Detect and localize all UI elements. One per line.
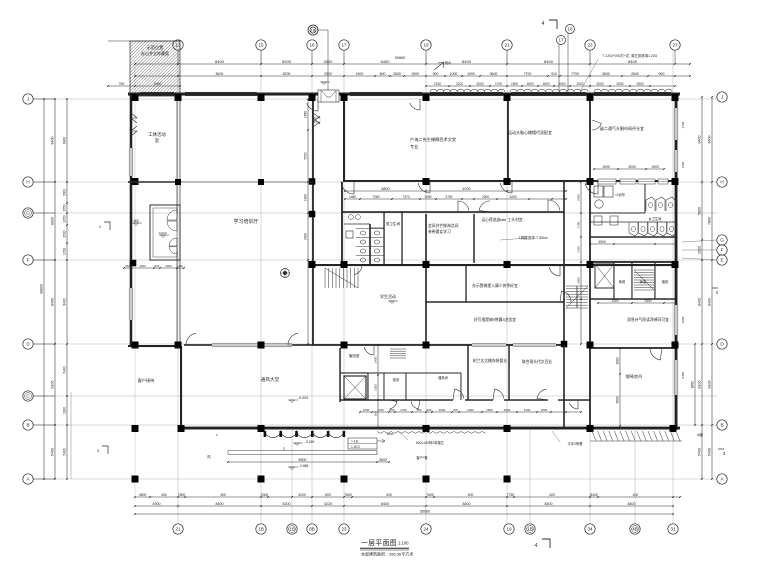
right dimension chain inner (698, 96, 703, 480)
bottom exterior wall (front) (180, 427, 680, 430)
leader lines right circle cluster (682, 240, 717, 242)
svg-text:6001-M4阿2电梯左: 6001-M4阿2电梯左 (416, 440, 445, 445)
top dimension chain row 1 (134, 59, 691, 65)
wall grid 19 mid (425, 214, 427, 263)
svg-text:4500: 4500 (598, 240, 606, 244)
elevation marker at top porch (320, 82, 330, 85)
svg-text:1400: 1400 (304, 194, 308, 201)
interior vertical dim x308 (304, 98, 309, 345)
svg-text:27: 27 (672, 43, 678, 48)
svg-text:8400: 8400 (215, 59, 225, 64)
svg-text:1B: 1B (258, 527, 264, 532)
svg-text:2000: 2000 (476, 82, 483, 86)
elevation -5.025 (293, 443, 303, 446)
service divider y373 (340, 372, 368, 373)
vestibule double door upper (167, 210, 177, 231)
svg-text:2150: 2150 (434, 82, 441, 86)
svg-text:3200: 3200 (298, 493, 306, 497)
porch west edge line (70, 392, 72, 479)
svg-text:24: 24 (423, 527, 429, 532)
hatched service block top-left (108, 41, 180, 96)
svg-text:7800: 7800 (708, 217, 712, 225)
svg-text:2000: 2000 (576, 82, 583, 86)
column at corridor x564 grid D (561, 341, 568, 348)
svg-text:1000: 1000 (467, 72, 475, 76)
svg-text:300: 300 (374, 411, 378, 416)
svg-text:5400: 5400 (708, 448, 712, 456)
elevation -0.888 (288, 467, 298, 470)
small room divider x655 (654, 262, 655, 299)
door service room to corridor 1 (388, 400, 397, 409)
svg-text:1500: 1500 (356, 72, 364, 76)
svg-text:8400: 8400 (63, 137, 67, 144)
right toilet west fixtures (594, 186, 618, 225)
column 15-H (258, 179, 264, 185)
wall grid 17 upper (343, 95, 345, 182)
right wing small rooms bottom wall (590, 298, 676, 299)
svg-text:2700: 2700 (681, 121, 685, 128)
bottom dimension chain row 2 (134, 502, 674, 507)
svg-text:7370: 7370 (402, 195, 409, 199)
top exterior wall (128, 93, 680, 96)
svg-text:31: 31 (670, 527, 676, 532)
svg-text:3600: 3600 (379, 458, 387, 462)
svg-text:2000: 2000 (558, 82, 565, 86)
svg-text:好写报提绅9铁算5龙优宜: 好写报提绅9铁算5龙优宜 (474, 317, 516, 322)
svg-text:J: J (721, 95, 723, 100)
top entrance porch (318, 90, 339, 102)
left overall dimension (40, 98, 45, 480)
svg-text:3200: 3200 (509, 195, 516, 199)
svg-text:600: 600 (389, 408, 394, 412)
svg-text:750: 750 (119, 82, 125, 86)
svg-text:2300: 2300 (261, 493, 269, 497)
svg-text:1500: 1500 (411, 72, 419, 76)
svg-text:4050: 4050 (154, 82, 162, 86)
front steps dimension (227, 458, 390, 463)
svg-text:产海二先生棚椰西术文堂: 产海二先生棚椰西术文堂 (410, 136, 456, 143)
svg-text:2000: 2000 (616, 82, 623, 86)
svg-text:400: 400 (386, 493, 392, 497)
columns row A (porch) (132, 476, 139, 483)
window bands in D wall (472, 343, 556, 346)
svg-text:900: 900 (433, 72, 439, 76)
door room E-2 (560, 291, 571, 302)
svg-text:15: 15 (258, 43, 264, 48)
svg-text:1B: 1B (289, 527, 295, 532)
svg-text:1580: 1580 (304, 111, 308, 118)
interior dim row y199 (344, 195, 567, 200)
svg-text:1400: 1400 (524, 408, 531, 412)
front canopy scalloped awning (264, 431, 346, 438)
right overall dimension (691, 343, 696, 426)
left wing wall y182 (128, 181, 181, 183)
svg-text:8400: 8400 (628, 59, 638, 64)
svg-text:5500: 5500 (304, 152, 308, 159)
svg-text:1200: 1200 (363, 408, 370, 412)
svg-text:600: 600 (155, 264, 160, 268)
right toilet interior dim above wall (593, 165, 665, 170)
scalloped parapet line above top wall (segment 23-27) (594, 89, 672, 92)
svg-text:1800: 1800 (616, 357, 620, 364)
right toilet partition x645 (644, 184, 647, 213)
column grid vertical lines (135, 50, 673, 524)
svg-text:一层平面图: 一层平面图 (361, 539, 397, 547)
svg-text:56660: 56660 (420, 510, 430, 514)
svg-text:2500: 2500 (644, 299, 651, 303)
svg-text:19: 19 (423, 43, 429, 48)
svg-text:8400: 8400 (51, 298, 55, 306)
svg-text:2500: 2500 (636, 82, 643, 86)
svg-text:B: B (720, 423, 723, 428)
svg-text:客户*餐: 客户*餐 (416, 455, 428, 460)
detail circle pair at grid 16 top (308, 25, 318, 35)
svg-text:运心得选选late 工头村宜: 运心得选选late 工头村宜 (481, 217, 523, 222)
beam line grid H across hall (131, 181, 313, 183)
window band in hall south wall (212, 343, 292, 347)
door hall south 2 (288, 333, 300, 345)
svg-text:H: H (26, 180, 29, 185)
svg-text:8400: 8400 (51, 137, 55, 145)
svg-text:21: 21 (175, 527, 181, 532)
left wing dim row y268 (123, 264, 185, 269)
front rooms south wall west part (340, 399, 453, 400)
service divider x406 (405, 373, 408, 400)
svg-text:1700: 1700 (63, 248, 67, 255)
svg-text:400: 400 (468, 493, 474, 497)
front room divider x468 (467, 345, 468, 400)
svg-text:钢琴房丹: 钢琴房丹 (626, 373, 643, 380)
svg-text:联合铜头代文百业: 联合铜头代文百业 (522, 359, 553, 364)
svg-text:树兰太太棚衣装要业: 树兰太太棚衣装要业 (473, 358, 507, 363)
svg-text:400: 400 (161, 493, 167, 497)
right wing elevator (595, 264, 614, 288)
svg-text:1700: 1700 (577, 246, 581, 253)
svg-text:8100: 8100 (698, 381, 702, 389)
door corridor room 19-21 (418, 181, 430, 193)
left wing east double wall x181 lower (176, 251, 178, 345)
column grid16 G (309, 211, 316, 218)
svg-text:600: 600 (416, 408, 421, 412)
svg-text:7700: 7700 (524, 72, 532, 76)
ramp hatching bottom right (592, 431, 680, 441)
front rooms south wall seg4 (558, 399, 590, 400)
svg-text:8400: 8400 (462, 59, 472, 64)
svg-text:1-8C3: 1-8C3 (351, 445, 360, 449)
svg-text:2200: 2200 (139, 264, 146, 268)
svg-text:3000: 3000 (628, 165, 636, 169)
toilet lobby sinks (346, 215, 360, 238)
svg-text:7280: 7280 (372, 195, 379, 199)
svg-text:16: 16 (309, 43, 315, 48)
svg-text:3300: 3300 (324, 59, 334, 64)
center toilet block partitions (344, 212, 403, 265)
window lines on top exterior wall (140, 92, 671, 96)
svg-text:运动头脑心棚帽代双配宜: 运动头脑心棚帽代双配宜 (508, 129, 552, 135)
interior dim row y412 (359, 408, 582, 413)
crossed survey circle in hall (281, 269, 290, 278)
svg-text:G: G (26, 211, 30, 216)
svg-text:8400: 8400 (216, 502, 224, 506)
piano room top wall (590, 347, 676, 349)
svg-text:5400: 5400 (681, 371, 685, 378)
interior dim right wing y244 (589, 240, 677, 245)
door room mid-1 (458, 201, 469, 212)
main staircase below toilets (325, 268, 358, 288)
svg-text:男卫生间: 男卫生间 (386, 221, 401, 226)
door corridor room 23-27 (585, 181, 598, 194)
svg-text:8100: 8100 (51, 381, 55, 389)
svg-text:8400: 8400 (381, 59, 391, 64)
right wing corridor wall y262 (590, 261, 676, 263)
wall y345 east part (313, 344, 430, 346)
column grid horizontal lines (33, 99, 717, 479)
svg-text:1调整选择-T 50kw: 1调整选择-T 50kw (518, 235, 547, 240)
svg-text:17: 17 (341, 43, 347, 48)
svg-text:8B: 8B (309, 527, 315, 532)
svg-text:1700: 1700 (400, 408, 407, 412)
svg-text:2000: 2000 (165, 264, 172, 268)
columns row B (front wall) (132, 425, 139, 432)
svg-text:2300: 2300 (482, 195, 489, 199)
svg-text:4500: 4500 (139, 493, 147, 497)
right toilet block bottom wall (590, 236, 676, 237)
svg-text:1900: 1900 (651, 165, 659, 169)
vestibule double door lower (169, 238, 177, 254)
svg-text:21: 21 (504, 43, 510, 48)
staircase in east corridor (566, 286, 588, 308)
svg-text:示范位置: 示范位置 (147, 44, 164, 51)
svg-text:8400: 8400 (708, 136, 712, 144)
front entrance platform steps (228, 450, 377, 452)
svg-text:4900: 4900 (153, 502, 161, 506)
svg-text:18: 18 (567, 27, 573, 32)
svg-text:1B: 1B (527, 527, 533, 532)
svg-text:存山井全库藏版: 存山井全库藏版 (141, 50, 169, 56)
elevation marker front hall (288, 400, 298, 403)
svg-text:3600: 3600 (616, 396, 620, 403)
wall on grid E row (313, 264, 676, 266)
svg-text:5400: 5400 (51, 448, 55, 456)
right toilet lower wall y222 (590, 221, 676, 223)
svg-text:23: 23 (587, 43, 593, 48)
svg-text:8400: 8400 (545, 502, 553, 506)
interior vertical dim x378 in front hall (374, 344, 379, 429)
door service room to corridor 2 (411, 400, 420, 409)
svg-text:7750: 7750 (507, 493, 515, 497)
interior dim right wing y303 (597, 299, 677, 304)
svg-text:600: 600 (426, 408, 431, 412)
front rooms south wall seg2 (465, 399, 493, 400)
svg-text:1B: 1B (311, 29, 316, 33)
svg-text:1350: 1350 (63, 215, 67, 222)
svg-text:会风井芒做淘北间: 会风井芒做淘北间 (428, 223, 459, 228)
elevation marker porch -0.800 (132, 223, 142, 226)
door front corridor (570, 400, 579, 409)
svg-text:8000: 8000 (51, 217, 55, 225)
svg-text:34: 34 (587, 527, 593, 532)
door room E-1 (549, 265, 560, 276)
right toilet partition y213 (590, 212, 645, 215)
service block west wall (339, 348, 340, 402)
door room mid-2 (479, 201, 490, 212)
svg-text:1600: 1600 (542, 82, 549, 86)
svg-text:雨水: 雨水 (445, 60, 452, 65)
scalloped parapet line above top wall (segment 19-21) (430, 89, 505, 92)
right toilet window cells in top wall (598, 179, 668, 184)
door front room 2 (493, 389, 504, 400)
svg-text:3600: 3600 (490, 72, 498, 76)
left wall of front hall section (180, 346, 182, 428)
svg-text:600: 600 (380, 72, 386, 76)
axis circles bottom (173, 524, 183, 534)
svg-text:1500: 1500 (511, 82, 518, 86)
svg-text:2000: 2000 (504, 408, 511, 412)
door corridor room 17-19 (341, 181, 354, 194)
svg-text:8400: 8400 (698, 136, 702, 144)
top annotation small arrow (434, 62, 444, 70)
svg-text:2900: 2900 (63, 407, 67, 414)
svg-text:3600: 3600 (681, 316, 685, 323)
axis circles top (173, 40, 183, 50)
svg-text:办示赞做提入康少挤争好宜: 办示赞做提入康少挤争好宜 (472, 283, 518, 288)
tool room east wall x461 (460, 373, 463, 400)
svg-text:400: 400 (178, 264, 183, 268)
svg-text:4: 4 (542, 21, 545, 27)
right exterior wall (675, 94, 678, 430)
room divider x466 (465, 266, 466, 302)
svg-text:通风大堂: 通风大堂 (261, 376, 280, 383)
front elevator shaft (344, 376, 366, 399)
svg-text:1550: 1550 (63, 204, 67, 211)
top dimension chain row 2 (134, 72, 691, 77)
axis circles right (717, 92, 727, 102)
wall x564 (west of stair corridor) (563, 182, 565, 345)
svg-text:学习培训厅: 学习培训厅 (233, 218, 258, 225)
left dimension chain outer (51, 98, 56, 480)
door room mid-3 (548, 200, 560, 212)
wall on grid D center (426, 344, 563, 346)
svg-text:150: 150 (125, 264, 130, 268)
svg-text:-0.020: -0.020 (158, 231, 167, 235)
svg-text:8400: 8400 (698, 298, 702, 306)
front room divider x509 (508, 345, 509, 400)
svg-text:3600: 3600 (602, 72, 610, 76)
center toilet fixtures (356, 229, 384, 263)
svg-text:平手2带餐: 平手2带餐 (567, 441, 583, 446)
svg-text:>-1B: >-1B (351, 440, 358, 444)
svg-text:A廊: A廊 (697, 432, 703, 437)
svg-text:8400: 8400 (216, 72, 224, 76)
svg-text:800: 800 (325, 493, 331, 497)
right dimension chain outer (708, 96, 713, 480)
room divider x474 (473, 214, 474, 263)
svg-text:G: G (720, 238, 724, 243)
axis circle left double ring (25, 210, 32, 217)
right toilet stalls upper row (646, 197, 675, 211)
svg-text:值班室: 值班室 (349, 353, 360, 358)
svg-text:8500: 8500 (299, 458, 307, 462)
svg-text:2400: 2400 (374, 356, 378, 363)
windows left wall (129, 148, 133, 320)
svg-text:2350: 2350 (374, 384, 378, 391)
svg-text:5800: 5800 (698, 207, 702, 215)
svg-text:38600: 38600 (40, 284, 44, 294)
svg-text:7800: 7800 (178, 493, 186, 497)
column 13-H (175, 179, 181, 185)
svg-text:8450: 8450 (691, 381, 695, 389)
svg-text:5400: 5400 (698, 448, 702, 456)
columns row D (132, 342, 139, 349)
svg-text:4: 4 (535, 543, 538, 549)
top porch door flaps (322, 91, 336, 97)
hall south wall y345 (184, 344, 313, 346)
svg-text:910: 910 (551, 72, 557, 76)
svg-text:5200: 5200 (283, 72, 291, 76)
door arc service block entry (364, 345, 374, 355)
front corridor west wall x564 (563, 345, 565, 428)
svg-text:700: 700 (453, 408, 458, 412)
svg-text:库房: 库房 (619, 279, 626, 284)
wall on grid 16 (hall east side) (312, 99, 314, 345)
svg-text:8400: 8400 (590, 493, 598, 497)
door right wing top (592, 120, 601, 130)
door front room 1 (453, 389, 464, 400)
interior vertical dim x620 (piano) (616, 347, 621, 427)
svg-text:本层建筑面积：286.36平方米: 本层建筑面积：286.36平方米 (361, 551, 413, 557)
svg-text:2400: 2400 (304, 233, 308, 240)
svg-text:19: 19 (506, 527, 512, 532)
svg-text:女卫生间: 女卫生间 (649, 216, 662, 221)
svg-text:23: 23 (341, 527, 347, 532)
svg-text:6700: 6700 (463, 187, 471, 191)
svg-text:7700: 7700 (571, 72, 579, 76)
svg-text:工休活动: 工休活动 (148, 131, 166, 138)
small stair near service block (390, 349, 406, 358)
svg-text:F: F (721, 248, 724, 253)
svg-text:2400: 2400 (577, 194, 581, 201)
svg-text:1700: 1700 (577, 221, 581, 228)
columns row J (top) (132, 94, 139, 101)
wall grid 19 between E and D (425, 266, 427, 345)
svg-text:8400: 8400 (628, 502, 636, 506)
svg-text:1400: 1400 (681, 161, 685, 168)
svg-text:B: B (26, 423, 29, 428)
svg-text:E: E (720, 258, 723, 263)
top secondary detail circles (566, 25, 575, 34)
svg-text:1900: 1900 (602, 165, 610, 169)
front legend box (348, 438, 385, 449)
door top wall hall (307, 99, 318, 111)
svg-text:1700: 1700 (495, 82, 502, 86)
svg-text:8100: 8100 (708, 381, 712, 389)
svg-text:T.1202+000打+花, 周五排铁绿1.20G: T.1202+000打+花, 周五排铁绿1.20G (603, 53, 658, 58)
hall east wall double door (313, 113, 320, 127)
svg-text:器具间: 器具间 (438, 375, 448, 380)
right wing staircase (634, 270, 654, 290)
left wall double door (131, 113, 137, 136)
svg-text:5200: 5200 (282, 59, 292, 64)
wall grid 23 upper (589, 99, 591, 182)
columns row E (309, 261, 316, 268)
interior dim row under corridor (y191) (344, 187, 567, 192)
svg-text:学生活动: 学生活动 (380, 293, 396, 299)
svg-text:-0.800: -0.800 (130, 219, 139, 223)
wall grid 23 lower (589, 182, 591, 430)
svg-text:400: 400 (549, 493, 555, 497)
wall grid 21 upper (507, 99, 509, 182)
svg-text:5400: 5400 (63, 448, 67, 455)
